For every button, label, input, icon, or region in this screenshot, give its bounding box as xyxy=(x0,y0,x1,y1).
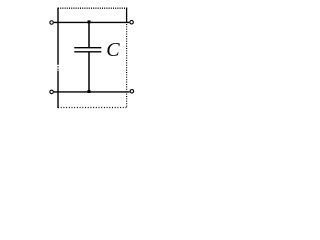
svg-text:C: C xyxy=(106,39,120,61)
terminal, top-right xyxy=(130,20,134,24)
capacitor C, top plate xyxy=(74,47,101,49)
capacitor C, bottom plate xyxy=(74,51,101,53)
terminal, bottom-left xyxy=(50,90,54,94)
network boundary box, left edge upper solid segment xyxy=(57,8,59,65)
junction dot, top node xyxy=(88,20,91,23)
terminal, top-left xyxy=(50,21,54,25)
terminal, bottom-right xyxy=(130,90,134,94)
network boundary box, right edge dotted segment xyxy=(126,24,128,108)
network boundary box, bottom edge xyxy=(58,107,127,109)
network boundary box (dotted), top edge xyxy=(58,7,127,9)
wire: top rail xyxy=(54,21,129,23)
network boundary box, left edge lower solid segment xyxy=(57,71,59,108)
network boundary box, right edge solid upper segment xyxy=(126,8,128,23)
wire: bottom rail xyxy=(54,91,130,93)
junction dot, bottom node xyxy=(88,90,91,93)
network boundary box, left edge small dots xyxy=(57,66,58,67)
wire: capacitor branch upper xyxy=(88,22,90,47)
wire: capacitor branch lower xyxy=(88,52,90,92)
